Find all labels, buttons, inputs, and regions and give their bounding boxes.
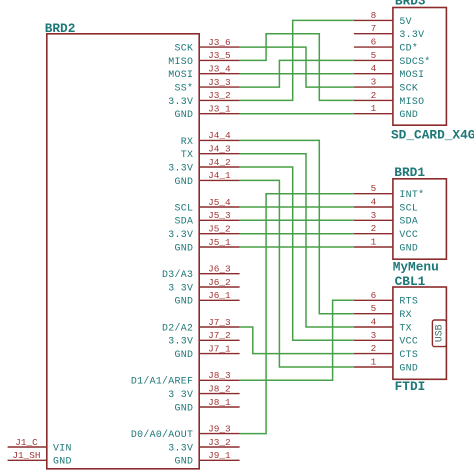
svg-text:RX: RX	[399, 309, 411, 320]
pin 8 (5V) of BRD3	[354, 10, 412, 27]
pin 6 (CD*) of BRD3	[354, 37, 418, 54]
svg-text:J1_SH: J1_SH	[12, 450, 40, 461]
wire SDA net: BRD2 J5_3 to BRD1 pin3	[240, 219, 354, 221]
svg-text:3.3V: 3.3V	[168, 336, 193, 347]
pin J6_1 (GND) of BRD2	[175, 290, 240, 307]
pin 5 (INT*) of BRD1	[354, 183, 424, 200]
svg-text:VIN: VIN	[53, 442, 72, 453]
wire GND net: BRD2 J4_1 to CBL1 pin1	[240, 180, 354, 367]
pin J3_6 (SCK) of BRD2	[175, 37, 240, 54]
pin 2 (VCC) of BRD1	[354, 223, 418, 240]
svg-text:CBL1: CBL1	[395, 274, 426, 289]
svg-text:J7_2: J7_2	[208, 330, 231, 341]
svg-text:4: 4	[371, 197, 377, 208]
svg-text:3.3V: 3.3V	[168, 442, 193, 453]
svg-text:J9_1: J9_1	[208, 450, 231, 461]
svg-text:3.3V: 3.3V	[168, 96, 193, 107]
pin J3_4 (MOSI) of BRD2	[168, 64, 239, 81]
pin J3_1 (GND) of BRD2	[175, 104, 240, 121]
wire MOSI net: BRD2 J3_4 to BRD3 pin4	[240, 73, 354, 75]
svg-text:J3_3: J3_3	[208, 77, 231, 88]
svg-text:SCK: SCK	[175, 43, 194, 54]
pin J8_3 (D1/A1/AREF) of BRD2	[131, 370, 240, 387]
pin J5_3 (SDA) of BRD2	[175, 210, 240, 227]
pin J1_SH (GND) of BRD2	[8, 450, 72, 467]
svg-text:3 3V: 3 3V	[168, 389, 193, 400]
svg-text:GND: GND	[175, 402, 194, 413]
svg-text:1: 1	[371, 103, 377, 114]
svg-text:GND: GND	[175, 349, 194, 360]
svg-text:3.3V: 3.3V	[168, 162, 193, 173]
svg-text:J3_2: J3_2	[208, 437, 231, 448]
svg-text:1: 1	[371, 357, 377, 368]
svg-text:2: 2	[371, 90, 377, 101]
svg-text:J4_4: J4_4	[208, 130, 231, 141]
svg-text:J4_3: J4_3	[208, 144, 231, 155]
svg-text:GND: GND	[53, 456, 72, 467]
svg-text:5: 5	[371, 183, 377, 194]
svg-text:INT*: INT*	[399, 189, 424, 200]
svg-text:GND: GND	[399, 362, 418, 373]
svg-text:7: 7	[371, 23, 377, 34]
svg-text:J4_2: J4_2	[208, 157, 231, 168]
pin 1 (GND) of CBL1	[354, 357, 418, 374]
svg-text:J8_1: J8_1	[208, 397, 231, 408]
svg-text:J6_2: J6_2	[208, 277, 231, 288]
pin 3 (SDA) of BRD1	[354, 210, 418, 227]
svg-text:6: 6	[371, 290, 377, 301]
svg-text:TX: TX	[399, 322, 411, 333]
svg-text:8: 8	[371, 10, 377, 21]
pin 3 (SCK) of BRD3	[354, 77, 418, 94]
svg-text:2: 2	[371, 223, 377, 234]
wire CTS net: BRD2 J7_3 to CBL1 pin2	[240, 327, 354, 354]
svg-text:D1/A1/AREF: D1/A1/AREF	[131, 376, 193, 387]
svg-text:D0/A0/AOUT: D0/A0/AOUT	[131, 429, 193, 440]
wire GND net: BRD2 J5_1 to BRD1 pin1	[240, 246, 354, 248]
svg-text:BRD3: BRD3	[395, 0, 426, 9]
svg-text:FTDI: FTDI	[395, 379, 426, 394]
svg-text:J6_3: J6_3	[208, 264, 231, 275]
pin J6_3 (D3/A3) of BRD2	[162, 264, 240, 281]
svg-text:VCC: VCC	[399, 336, 418, 347]
svg-text:GND: GND	[175, 176, 194, 187]
svg-text:3: 3	[371, 77, 377, 88]
pin J4_4 (RX) of BRD2	[181, 130, 240, 147]
pin J6_2 (3 3V) of BRD2	[168, 277, 239, 294]
svg-text:J7_1: J7_1	[208, 343, 231, 354]
svg-text:J5_3: J5_3	[208, 210, 231, 221]
svg-text:J3_4: J3_4	[208, 64, 231, 75]
svg-text:VCC: VCC	[399, 229, 418, 240]
pin J5_4 (SCL) of BRD2	[175, 197, 240, 214]
svg-text:J5_1: J5_1	[208, 237, 231, 248]
svg-text:GND: GND	[399, 242, 418, 253]
pin J1_C (VIN) of BRD2	[8, 437, 72, 454]
svg-text:MOSI: MOSI	[168, 69, 193, 80]
pin 4 (SCL) of BRD1	[354, 197, 418, 214]
pin J3_3 (SS*) of BRD2	[175, 77, 240, 94]
svg-text:USB: USB	[434, 324, 445, 342]
wire GND net: BRD2 J3_1 to BRD3 pin1	[240, 113, 354, 115]
svg-text:SCL: SCL	[175, 202, 194, 213]
svg-text:J3_5: J3_5	[208, 50, 231, 61]
svg-text:J5_2: J5_2	[208, 224, 231, 235]
svg-text:D3/A3: D3/A3	[162, 269, 193, 280]
pin J5_2 (3.3V) of BRD2	[168, 224, 239, 241]
IC BRD1 body	[393, 179, 447, 259]
svg-text:GND: GND	[175, 456, 194, 467]
svg-text:J5_4: J5_4	[208, 197, 231, 208]
svg-text:GND: GND	[175, 109, 194, 120]
svg-text:SDCS*: SDCS*	[399, 56, 430, 67]
pin J9_3 (D0/A0/AOUT) of BRD2	[131, 423, 240, 440]
svg-text:MISO: MISO	[399, 96, 424, 107]
svg-text:MyMenu: MyMenu	[393, 260, 439, 275]
wire 3.3V net: BRD2 J4_2 to CBL1 pin3	[240, 167, 354, 340]
svg-text:J3_2: J3_2	[208, 90, 231, 101]
pin J7_1 (GND) of BRD2	[175, 343, 240, 360]
pin 1 (GND) of BRD3	[354, 103, 418, 120]
svg-text:J9_3: J9_3	[208, 423, 231, 434]
svg-text:BRD1: BRD1	[394, 165, 425, 180]
pin 2 (CTS) of CBL1	[354, 343, 418, 360]
svg-text:J1_C: J1_C	[15, 437, 38, 448]
pin J7_3 (D2/A2) of BRD2	[162, 317, 240, 334]
cable CBL1 body	[393, 287, 447, 379]
svg-text:SS*: SS*	[175, 83, 194, 94]
pin J3_2 (3.3V) of BRD2	[168, 437, 239, 454]
USB port box on CBL1	[432, 320, 446, 347]
svg-text:D2/A2: D2/A2	[162, 322, 193, 333]
wire RTS net: BRD2 J8_3 to CBL1 pin6	[240, 300, 354, 380]
connector BRD3 body	[393, 8, 447, 126]
pin 5 (SDCS*) of BRD3	[354, 50, 431, 67]
svg-text:3: 3	[371, 210, 377, 221]
svg-text:6: 6	[371, 37, 377, 48]
svg-text:CD*: CD*	[399, 43, 418, 54]
svg-text:GND: GND	[399, 109, 418, 120]
svg-text:5: 5	[371, 303, 377, 314]
svg-text:J7_3: J7_3	[208, 317, 231, 328]
wire MISO net: BRD2 J3_5 to BRD3 pin2	[240, 34, 354, 101]
svg-text:5V: 5V	[399, 16, 411, 27]
svg-text:GND: GND	[175, 296, 194, 307]
pin J9_1 (GND) of BRD2	[175, 450, 240, 467]
svg-text:RX: RX	[181, 136, 193, 147]
svg-text:CTS: CTS	[399, 349, 418, 360]
svg-text:TX: TX	[181, 149, 193, 160]
svg-text:SDA: SDA	[175, 216, 194, 227]
svg-text:MOSI: MOSI	[399, 69, 424, 80]
pin 4 (MOSI) of BRD3	[354, 63, 424, 80]
pin J8_2 (3 3V) of BRD2	[168, 383, 239, 400]
wire SCL net: BRD2 J5_4 to BRD1 pin4	[240, 206, 354, 208]
svg-text:3 3V: 3 3V	[168, 282, 193, 293]
pin J3_2 (3.3V) of BRD2	[168, 90, 239, 107]
pin 5 (RX) of CBL1	[354, 303, 412, 320]
wire SS* net: BRD2 J3_3 to BRD3 pin5	[240, 60, 354, 87]
wire INT* net: BRD1 pin5 to BRD2 J9_3	[240, 194, 354, 434]
pin 3 (VCC) of CBL1	[354, 330, 418, 347]
pin J4_2 (3.3V) of BRD2	[168, 157, 239, 174]
pin 6 (RTS) of CBL1	[354, 290, 418, 307]
svg-text:SD_CARD_X4GB: SD_CARD_X4GB	[391, 127, 474, 142]
svg-text:3: 3	[371, 330, 377, 341]
wire Tx net: BRD2 J4_3 to CBL1 pin4	[240, 154, 354, 327]
svg-text:J3_6: J3_6	[208, 37, 231, 48]
svg-text:BRD2: BRD2	[45, 21, 76, 36]
svg-text:4: 4	[371, 317, 377, 328]
wire 3.3V net: BRD2 J3_2 to BRD3 pin8	[240, 20, 354, 100]
connector BRD2 body	[47, 34, 199, 469]
wire VCC net: BRD2 J5_2 to BRD1 pin2	[240, 233, 354, 235]
svg-text:GND: GND	[175, 242, 194, 253]
svg-text:SCK: SCK	[399, 83, 418, 94]
wire SCK net: BRD2 J3_6 to BRD3 pin3	[240, 47, 354, 87]
pin J4_1 (GND) of BRD2	[175, 170, 240, 187]
pin J3_5 (MISO) of BRD2	[168, 50, 239, 67]
pin 7 (3.3V) of BRD3	[354, 23, 424, 40]
svg-text:J6_1: J6_1	[208, 290, 231, 301]
svg-text:J4_1: J4_1	[208, 170, 231, 181]
svg-text:5: 5	[371, 50, 377, 61]
svg-text:2: 2	[371, 343, 377, 354]
pin J5_1 (GND) of BRD2	[175, 237, 240, 254]
pin J8_1 (GND) of BRD2	[175, 397, 240, 414]
svg-text:J8_3: J8_3	[208, 370, 231, 381]
svg-text:J3_1: J3_1	[208, 104, 231, 115]
svg-text:SCL: SCL	[399, 202, 418, 213]
svg-text:3.3V: 3.3V	[399, 29, 424, 40]
pin 4 (TX) of CBL1	[354, 317, 412, 334]
svg-text:1: 1	[371, 237, 377, 248]
pin 2 (MISO) of BRD3	[354, 90, 424, 107]
wire Rx net: BRD2 J4_4 to CBL1 pin5	[240, 140, 354, 313]
svg-text:4: 4	[371, 63, 377, 74]
pin J7_2 (3.3V) of BRD2	[168, 330, 239, 347]
svg-text:MISO: MISO	[168, 56, 193, 67]
svg-text:RTS: RTS	[399, 296, 418, 307]
pin 1 (GND) of BRD1	[354, 237, 418, 254]
svg-text:SDA: SDA	[399, 216, 418, 227]
svg-text:J8_2: J8_2	[208, 383, 231, 394]
svg-text:3.3V: 3.3V	[168, 229, 193, 240]
pin J4_3 (TX) of BRD2	[181, 144, 240, 161]
